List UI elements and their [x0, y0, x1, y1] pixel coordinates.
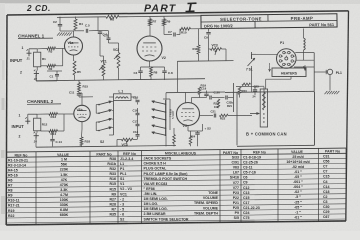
wire junction ch2 [63, 114, 65, 131]
resistor R9 [163, 16, 165, 19]
capacitor C5 [85, 29, 87, 33]
cathode components V3 [187, 126, 189, 132]
resistor R8 [150, 67, 153, 77]
resistor R7 [149, 16, 151, 19]
resistor R10 [177, 34, 181, 36]
resistor R6 [106, 15, 119, 18]
resistor R2 [41, 65, 47, 67]
pentode V3 [177, 103, 200, 126]
ground below PL1 [329, 75, 331, 91]
resistor R3 [37, 48, 47, 50]
capacitor C1 [35, 76, 37, 81]
resistor R14 [41, 130, 49, 132]
HT rail wire [57, 16, 106, 19]
switch bank S2 left wafer [99, 102, 110, 105]
capacitor C3 [108, 31, 110, 38]
title box SELECTOR-TONE PRE-AMP [201, 14, 337, 29]
resistor R4 [74, 19, 77, 30]
capacitor C20 coupling pair [192, 97, 207, 99]
resistor R27 [173, 135, 176, 144]
cathode resistor R5 [73, 55, 75, 61]
pilot lamp PL1 [313, 53, 315, 93]
wires P1 to heaters [281, 66, 283, 68]
cathode resistor R18 [81, 122, 83, 129]
capacitor C7 [164, 34, 172, 36]
triode V1a [65, 37, 83, 55]
parts table grid [7, 148, 347, 152]
cathode network V2: capacitor C4 [149, 61, 151, 67]
heater dropper coil [303, 29, 305, 39]
wire mid horizontal [178, 60, 234, 63]
potentiometer VC4 [122, 138, 134, 141]
anode wire V1b up [81, 93, 83, 105]
dropper box VR [260, 89, 267, 127]
anode wire V1a [73, 31, 75, 37]
anode wires V3 [185, 92, 187, 103]
chassis ground near channel 1 [57, 33, 60, 36]
switch bank S2 right wafer [154, 102, 166, 105]
HEATERS box [272, 68, 306, 77]
wire vertical x233 [233, 83, 235, 112]
capacitor C14 [52, 131, 54, 139]
B+ common can enclosure [236, 92, 238, 145]
triode V1b [74, 105, 90, 121]
border frame [7, 11, 349, 15]
scan smudges left margin [2, 98, 5, 110]
capacitor C11 [78, 92, 80, 93]
channel 2 ground wire [36, 146, 176, 148]
B+ rail [225, 91, 315, 92]
resistor R13 [37, 113, 49, 115]
switch common bus [113, 100, 115, 135]
channel 1 ground return wire [36, 79, 205, 81]
resistor R15 [78, 83, 81, 93]
capacitor C2 [59, 17, 61, 24]
capacitor C21 [211, 115, 213, 117]
capacitor C24 [195, 132, 199, 134]
capacitor C6 [97, 17, 99, 31]
pentode V2 [137, 36, 162, 61]
switch S1 [251, 52, 253, 59]
tremolo output network [200, 115, 212, 117]
resistor R11 [198, 29, 200, 45]
resistor R22 [220, 114, 229, 117]
wire junction ch1 input [62, 48, 64, 65]
resistor R1 [34, 52, 41, 67]
resistor R12 [34, 118, 41, 131]
resistor R26 [189, 136, 192, 145]
short rail [236, 85, 264, 87]
capacitor C8 [164, 67, 166, 71]
capacitor C9 [208, 29, 210, 32]
wire vertical x264 [263, 87, 265, 108]
capacitor C19 [206, 91, 208, 94]
resistor R24 horizontal [242, 83, 251, 85]
resistor R23 [238, 87, 241, 94]
pot arrow VR [250, 113, 258, 115]
